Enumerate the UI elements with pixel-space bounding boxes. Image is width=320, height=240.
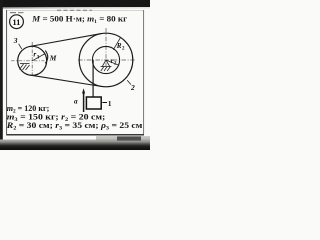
svg-text:3: 3 — [13, 36, 18, 45]
svg-text:M = 500 Н·м; m1 = 80 кг: M = 500 Н·м; m1 = 80 кг — [31, 15, 127, 26]
svg-text:R: R — [116, 42, 122, 50]
svg-text:a: a — [74, 97, 78, 105]
svg-text:1: 1 — [108, 99, 112, 108]
svg-text:11: 11 — [12, 17, 20, 27]
svg-text:2: 2 — [130, 83, 135, 92]
svg-text:M: M — [49, 53, 57, 62]
svg-text:R2 = 30 см; r3 = 35 см; ρ3 = 2: R2 = 30 см; r3 = 35 см; ρ3 = 25 см — [6, 121, 143, 132]
